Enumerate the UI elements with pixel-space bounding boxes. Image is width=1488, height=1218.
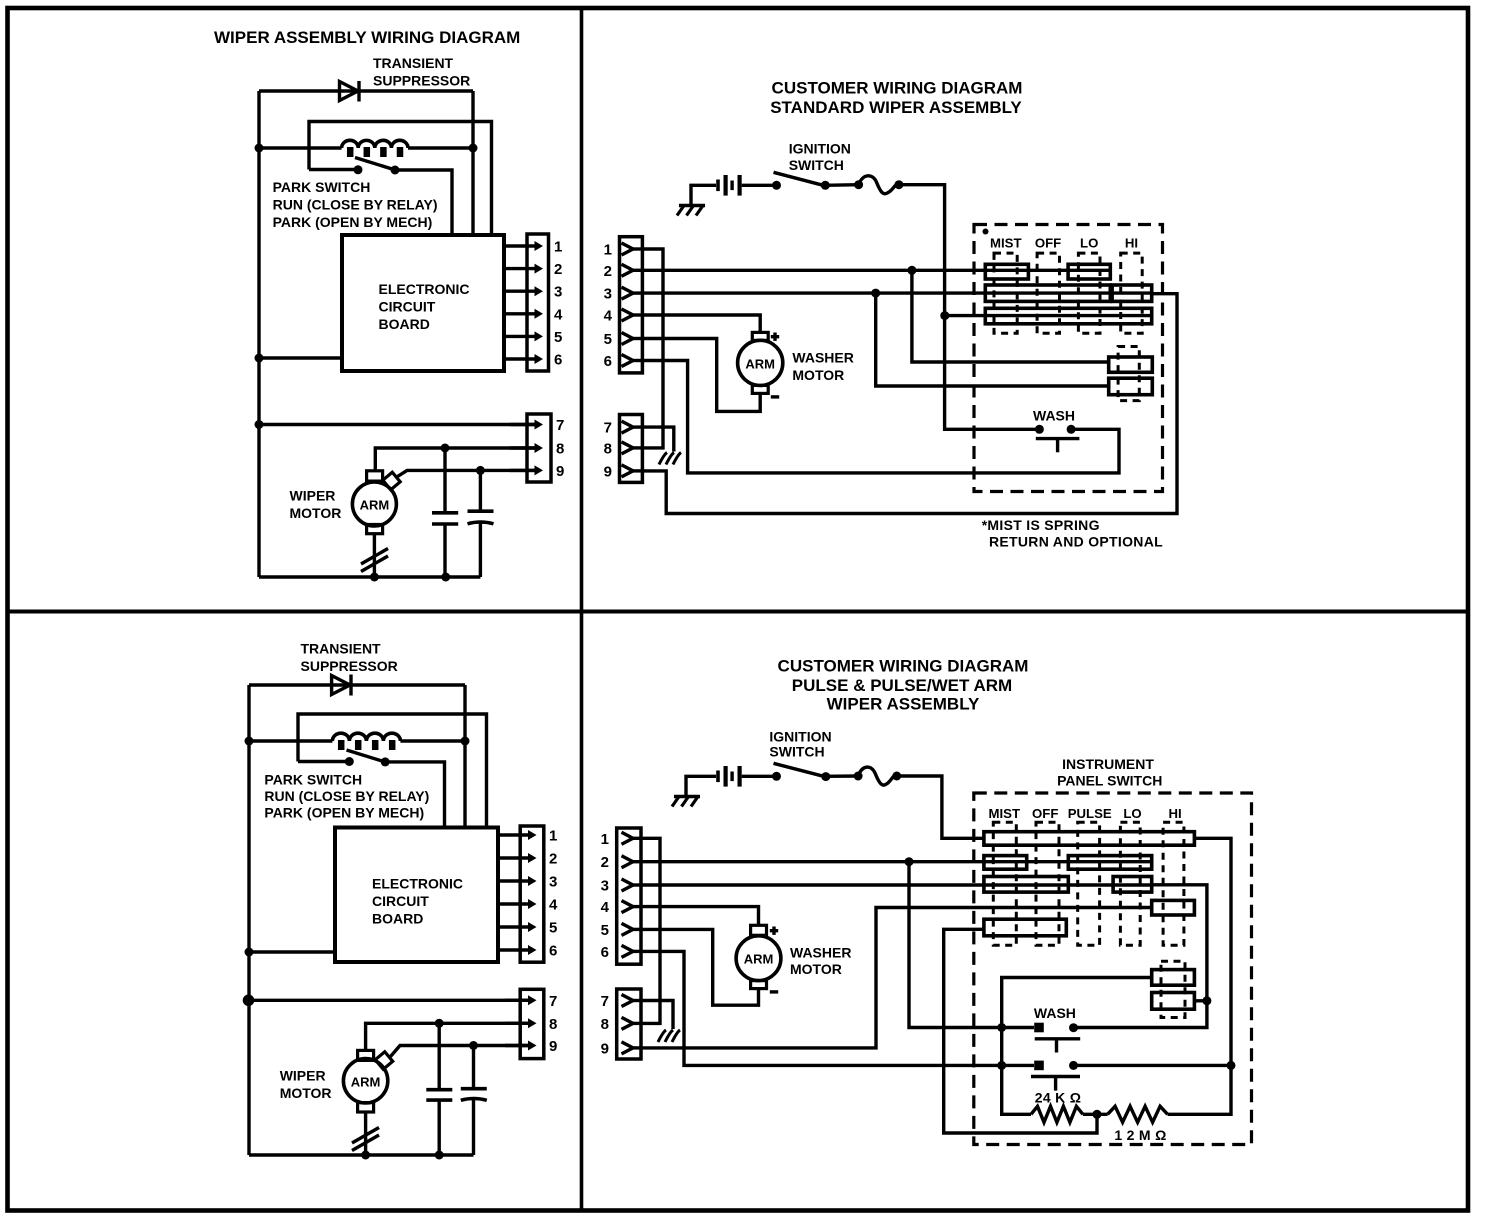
WASH switch S4 lower contacts (1034, 1061, 1044, 1071)
svg-text:PARK SWITCH: PARK SWITCH (264, 772, 362, 788)
junction: branch / WASH upper wire (997, 1023, 1006, 1032)
junction: pin8 wire / capacitor C3 (435, 1019, 444, 1028)
wire: left bus vertical (257, 91, 260, 577)
connector J6 shell pins 7-9 (620, 415, 643, 483)
pin 6 arrow (504, 357, 537, 360)
svg-text:5: 5 (549, 920, 557, 937)
wiper motor M1 body (352, 482, 396, 526)
svg-text:7: 7 (604, 420, 612, 437)
minus sign (770, 990, 778, 993)
junction: pin2 wire / WASH branch (905, 857, 914, 866)
svg-text:WASH: WASH (1034, 1005, 1076, 1021)
pin 2 terminal (622, 264, 634, 276)
junction: row3 output / washer contact B (1202, 996, 1211, 1005)
pin 6 arrow (498, 948, 531, 951)
svg-text:PARK SWITCH: PARK SWITCH (273, 179, 371, 195)
vertical divider between left and right panels (580, 8, 584, 1211)
svg-text:1: 1 (549, 828, 557, 845)
wire: row 5 to resistor junction (944, 929, 1097, 1133)
park switch contacts and lever (309, 168, 358, 171)
junction: motor / bottom bus (370, 573, 379, 582)
svg-text:OFF: OFF (1032, 806, 1058, 821)
svg-text:MOTOR: MOTOR (290, 505, 342, 521)
pin 1 terminal (622, 243, 634, 255)
svg-text:CIRCUIT: CIRCUIT (379, 299, 436, 315)
pin 7 terminal (622, 995, 634, 1007)
MIST slider dashed column (994, 253, 1017, 333)
junction: pin2 wire / washer contact branch (907, 266, 916, 275)
wire: pin 1 jumper down to pin 8 (641, 838, 660, 1023)
svg-text:CIRCUIT: CIRCUIT (372, 893, 429, 909)
asterisk marker for MIST (983, 229, 989, 235)
wire: pin 9 to motor brush (391, 1046, 529, 1057)
junction: feed / WASH-2 return (1227, 1061, 1236, 1070)
instrument panel dashed enclosure (974, 225, 1163, 492)
contact row5 MIST-OFF (984, 919, 1066, 936)
svg-text:ARM: ARM (745, 356, 775, 371)
pin 9 terminal (622, 1042, 634, 1054)
wire: washer contact B lead (1194, 999, 1207, 1002)
pin 8 terminal (622, 1017, 634, 1029)
svg-text:8: 8 (556, 441, 564, 458)
pin 1 arrow (504, 244, 537, 247)
svg-text:MOTOR: MOTOR (280, 1085, 332, 1101)
svg-text:RETURN AND OPTIONAL: RETURN AND OPTIONAL (989, 534, 1163, 550)
ground: pin 7 chassis ground (672, 1030, 680, 1042)
WASH switch plate and stem (1036, 437, 1080, 440)
wire: inductor feed from left bus (249, 739, 332, 742)
motor top terminal (358, 1050, 374, 1060)
pin 7 arrow (510, 423, 537, 426)
svg-text:ARM: ARM (744, 952, 774, 967)
plus sign (771, 335, 779, 338)
wire: 24K to junction (1083, 1113, 1108, 1116)
fusible link (854, 772, 863, 781)
junction: bus / board lead (245, 948, 254, 957)
wire: pin 4 to washer motor + (642, 315, 760, 332)
svg-text:WIPER: WIPER (290, 488, 336, 504)
HI slider dashed column (1121, 253, 1143, 333)
svg-text:WASHER: WASHER (790, 945, 851, 961)
inductor: relay coil (342, 140, 408, 148)
washer motor M4 body (736, 936, 781, 981)
pin 3 arrow (504, 290, 537, 293)
junction: branch / pin6 wire (997, 1061, 1006, 1070)
wire: pin 2 to MIST/LO row 1 (642, 269, 1110, 272)
svg-text:SWITCH: SWITCH (769, 744, 824, 760)
pin 2 terminal (622, 856, 634, 868)
svg-text:PARK (OPEN BY MECH): PARK (OPEN BY MECH) (273, 214, 433, 230)
pin 5 arrow (498, 925, 531, 928)
wire: battery negative lead (686, 776, 716, 796)
pin 4 terminal (622, 901, 634, 913)
svg-text:4: 4 (554, 306, 563, 323)
capacitor C1 (443, 448, 446, 512)
wire: fuse to feed vertical, down to LO/common row (899, 185, 945, 316)
svg-text:6: 6 (601, 944, 609, 961)
svg-text:3: 3 (549, 874, 557, 891)
svg-text:TRANSIENT: TRANSIENT (373, 55, 454, 71)
svg-text:2: 2 (549, 851, 557, 868)
connector J4 shell pins 7-9 (520, 989, 544, 1058)
svg-text:8: 8 (601, 1016, 609, 1033)
resistor R1 24 K ohm (1031, 1106, 1083, 1122)
wire: pin 7 to chassis ground (641, 1001, 673, 1030)
connector J2 shell pins 7-9 (527, 414, 551, 482)
svg-text:1: 1 (554, 239, 562, 256)
wire: washer contact A branch (1002, 978, 1152, 1115)
wire: inductor to right vertical (400, 739, 465, 742)
wiper motor M2 body (343, 1059, 387, 1103)
wire: pin 3 to row 2 (642, 291, 1152, 294)
svg-text:9: 9 (601, 1040, 609, 1057)
LO slider dashed column (1078, 253, 1100, 333)
svg-text:PANEL SWITCH: PANEL SWITCH (1057, 773, 1162, 789)
svg-text:3: 3 (601, 878, 609, 895)
svg-text:HI: HI (1125, 236, 1138, 251)
mechanical linkage slashes (352, 1128, 379, 1144)
svg-text:BOARD: BOARD (379, 316, 430, 332)
svg-text:HI: HI (1169, 806, 1182, 821)
wire: row 3 output to washer contact B and WASH right (1076, 885, 1207, 1028)
svg-text:MOTOR: MOTOR (792, 367, 844, 383)
connector J1 shell pins 1-6 (527, 234, 549, 371)
pin 6 terminal (622, 945, 634, 957)
svg-text:6: 6 (554, 352, 562, 369)
pin 7 arrow (505, 999, 531, 1002)
motor bottom terminal (358, 1103, 374, 1112)
svg-text:9: 9 (556, 463, 564, 480)
svg-text:SUPPRESSOR: SUPPRESSOR (373, 73, 470, 89)
wire: park switch to board (395, 170, 452, 237)
pin 3 terminal (622, 879, 634, 891)
wire: battery negative lead (691, 185, 716, 205)
junction: pin9 wire / capacitor C4 (469, 1041, 478, 1050)
contact row2 PULSE-LO (1068, 856, 1151, 870)
capacitor C4 (472, 1046, 475, 1088)
WASH switch S4 upper contacts (1034, 1023, 1044, 1033)
svg-text:TRANSIENT: TRANSIENT (301, 641, 382, 657)
pin 4 arrow (504, 312, 537, 315)
wire: WASH-2 return (1076, 1064, 1231, 1067)
svg-text:2: 2 (601, 854, 609, 871)
junction: coil / right vertical (469, 144, 478, 153)
svg-text:WIPER: WIPER (280, 1068, 326, 1084)
wire: pin 8 to wiper motor armature (366, 1023, 528, 1050)
motor top terminal (367, 471, 383, 481)
wire: branch down to WASH upper pole (909, 862, 1034, 1028)
wire: inductor feed from left bus (259, 146, 342, 149)
svg-text:4: 4 (549, 897, 558, 914)
svg-text:WIPER ASSEMBLY: WIPER ASSEMBLY (827, 695, 980, 714)
washer slider dashed column (1118, 347, 1139, 401)
WASH lower plate and stem (1031, 1075, 1080, 1078)
wire: pin 9 to motor brush (398, 470, 535, 476)
wire: pin 7 from left bus (259, 423, 535, 426)
pin 9 arrow (505, 1044, 531, 1047)
washer motor bottom terminal (752, 385, 768, 393)
svg-text:7: 7 (601, 993, 609, 1010)
washer contact A (1152, 970, 1195, 986)
pin 3 terminal (622, 287, 634, 299)
svg-text:4: 4 (604, 308, 613, 325)
junction: coil / right vertical (461, 737, 470, 746)
svg-text:WASHER: WASHER (792, 349, 853, 365)
resistor R2 1.2 M ohm (1108, 1106, 1168, 1122)
svg-text:CUSTOMER WIRING DIAGRAM: CUSTOMER WIRING DIAGRAM (778, 657, 1029, 676)
ignition switch S3 lever and contacts (772, 772, 781, 781)
pin 4 arrow (498, 902, 531, 905)
svg-text:ELECTRONIC: ELECTRONIC (379, 281, 470, 297)
svg-text:MIST: MIST (989, 806, 1021, 821)
svg-text:MOTOR: MOTOR (790, 961, 842, 977)
ignition switch S1 lever and contacts (772, 181, 781, 190)
pin 9 arrow (510, 469, 537, 472)
washer motor top terminal (751, 925, 767, 935)
svg-text:*MIST IS SPRING: *MIST IS SPRING (982, 517, 1100, 533)
wire: pin 9 up to HI row 4 (641, 908, 1152, 1048)
svg-text:IGNITION: IGNITION (769, 729, 831, 745)
washer slider dashed column (1161, 961, 1185, 1017)
wire: switch to fusible link (825, 183, 858, 187)
svg-text:1: 1 (601, 831, 609, 848)
wire: pin 4 to washer motor + (641, 907, 759, 926)
junction: bus / board lead (255, 354, 264, 363)
wire: pin 2 to row 2 (641, 860, 1152, 863)
connector J7 shell pins 1-6 (617, 828, 641, 964)
wire: battery to ignition switch (742, 775, 777, 778)
wire: pin 8 to wiper motor armature (375, 448, 534, 471)
electronic circuit board U2 (335, 828, 498, 963)
pin 5 terminal (622, 333, 634, 345)
svg-text:24 K Ω: 24 K Ω (1035, 1090, 1082, 1106)
ground: battery chassis ground (679, 204, 705, 207)
pin 2 arrow (504, 267, 537, 270)
wire: branch to washer motor contact B (876, 293, 1109, 386)
svg-text:8: 8 (549, 1016, 557, 1033)
pin 9 terminal (622, 465, 634, 477)
motor brush terminal (rotated) (383, 472, 400, 489)
svg-text:WIPER ASSEMBLY WIRING DIAGRAM: WIPER ASSEMBLY WIRING DIAGRAM (214, 28, 520, 47)
svg-text:6: 6 (604, 353, 612, 370)
pin 5 arrow (504, 335, 537, 338)
wire: motor bottom lead to ground bus (373, 534, 376, 577)
svg-text:1: 1 (604, 242, 612, 259)
electronic circuit board U1 (342, 235, 504, 371)
svg-text:1 2 M Ω: 1 2 M Ω (1114, 1127, 1166, 1143)
svg-text:INSTRUMENT: INSTRUMENT (1062, 756, 1154, 772)
svg-text:ARM: ARM (360, 498, 390, 513)
svg-text:IGNITION: IGNITION (789, 141, 851, 157)
WASH switch S2 contacts (1035, 425, 1044, 434)
svg-text:5: 5 (601, 922, 609, 939)
OFF slider dashed column (1037, 253, 1059, 333)
svg-text:9: 9 (604, 463, 612, 480)
svg-text:5: 5 (604, 331, 612, 348)
washer contact B (1152, 993, 1195, 1010)
MIST slider dashed column (993, 822, 1016, 945)
svg-text:MIST: MIST (990, 236, 1022, 251)
junction: C3 / bottom bus (435, 1151, 444, 1160)
minus sign (771, 395, 779, 398)
svg-text:ARM: ARM (351, 1074, 381, 1089)
svg-text:PULSE & PULSE/WET ARM: PULSE & PULSE/WET ARM (792, 676, 1012, 695)
wire: pin 1 jumper down to pin 8 (642, 249, 663, 448)
battery B2 (716, 771, 720, 783)
svg-text:CUSTOMER WIRING DIAGRAM: CUSTOMER WIRING DIAGRAM (772, 79, 1023, 98)
diode CR1 transient suppressor (340, 81, 360, 102)
svg-text:STANDARD WIPER ASSEMBLY: STANDARD WIPER ASSEMBLY (770, 98, 1022, 117)
svg-text:SWITCH: SWITCH (789, 157, 844, 173)
motor brush terminal (rotated) (375, 1052, 392, 1069)
PULSE slider dashed column (1078, 822, 1100, 945)
contact row1 LO (1068, 264, 1110, 279)
svg-text:3: 3 (554, 284, 562, 301)
pin 1 arrow (498, 833, 531, 836)
wire: pin 7 to chassis ground (642, 427, 674, 451)
wire: pin 6 to WASH lower pole (641, 951, 1034, 1065)
contact row3 MIST-OFF (984, 877, 1068, 893)
svg-text:BOARD: BOARD (372, 911, 423, 927)
HI slider dashed column (1163, 822, 1184, 945)
wire: diode top horizontal from left bus to right vertical (259, 89, 473, 92)
wire: bottom ground bus (249, 1153, 474, 1156)
svg-text:RUN (CLOSE BY RELAY): RUN (CLOSE BY RELAY) (264, 788, 429, 804)
svg-text:6: 6 (549, 943, 557, 960)
junction: bus / pin7 wire (255, 420, 264, 429)
wire: bottom ground bus (259, 575, 480, 578)
wire: motor bottom lead to ground bus (364, 1112, 367, 1155)
battery B1 (716, 180, 720, 192)
wire: park switch to board (385, 762, 444, 829)
pin 8 terminal (622, 442, 634, 454)
fusible link (854, 180, 863, 189)
contact row4 HI (1152, 900, 1195, 915)
junction: left bus / coil (255, 144, 264, 153)
wire: pin 9 to HI output (642, 294, 1177, 514)
washer motor bottom terminal (751, 981, 767, 989)
washer contact A (1109, 357, 1153, 372)
wire: pin 5 to washer motor - (641, 929, 759, 1005)
diode CR2 transient suppressor (332, 675, 351, 696)
capacitor C3 (438, 1023, 441, 1088)
pin 1 terminal (622, 832, 634, 844)
svg-text:PULSE: PULSE (1068, 806, 1112, 821)
washer contact B (1109, 378, 1153, 395)
junction: feed / common row 3 (940, 311, 949, 320)
mechanical linkage slashes (361, 549, 388, 565)
LO slider dashed column (1120, 822, 1140, 945)
pin 7 terminal (622, 421, 634, 433)
washer motor M3 body (738, 340, 783, 385)
pin 4 terminal (622, 309, 634, 321)
svg-text:7: 7 (549, 993, 557, 1010)
wire: pin 6 to WASH switch return (642, 361, 1119, 473)
wire: common row 3 (945, 314, 1152, 317)
junction: motor / bottom bus (361, 1151, 370, 1160)
svg-text:RUN (CLOSE BY RELAY): RUN (CLOSE BY RELAY) (273, 197, 438, 213)
ground: pin 7 chassis ground (673, 453, 681, 465)
junction: left bus / coil (245, 737, 254, 746)
pin 3 arrow (498, 879, 531, 882)
svg-text:ELECTRONIC: ELECTRONIC (372, 876, 463, 892)
instrument panel dashed enclosure (974, 793, 1252, 1145)
svg-text:PARK (OPEN BY MECH): PARK (OPEN BY MECH) (264, 805, 424, 821)
pin 2 arrow (498, 856, 531, 859)
park switch contacts and lever (298, 760, 349, 763)
WASH upper plate and stem (1035, 1037, 1081, 1040)
horizontal divider between top and bottom panels (8, 610, 1469, 614)
junction: bus / pin7 wire (243, 995, 255, 1007)
contact row3 LO (1113, 877, 1152, 893)
wire: right vertical from diode line down to board pin (471, 91, 474, 237)
connector J5 shell pins 1-6 (620, 237, 643, 373)
connector J3 shell pins 1-6 (520, 826, 544, 962)
junction: pin3 wire / washer contact branch (871, 289, 880, 298)
svg-text:5: 5 (554, 329, 562, 346)
connector J8 shell pins 7-9 (617, 989, 641, 1059)
svg-text:4: 4 (601, 899, 610, 916)
pin 5 terminal (622, 923, 634, 935)
wire: feed continues down to WASH contact (945, 316, 1036, 430)
contact row2 common (985, 285, 1110, 301)
junction: C1 / bottom bus (441, 573, 450, 582)
washer motor top terminal (752, 332, 768, 340)
svg-text:3: 3 (604, 286, 612, 303)
wire: fuse to feed corner, down to feed row 1 (897, 776, 984, 838)
wire: diode top horizontal (249, 683, 465, 686)
wire: row 1 output feed down (1168, 838, 1231, 1114)
svg-text:9: 9 (549, 1038, 557, 1055)
contact row2 MIST (984, 856, 1027, 870)
pin 6 terminal (622, 355, 634, 367)
wire: relay loop top and sides (309, 122, 492, 237)
capacitor C2 (479, 470, 482, 509)
svg-text:LO: LO (1123, 806, 1141, 821)
junction: pin8 wire / capacitor C1 (441, 444, 450, 453)
wire: relay loop top and sides (298, 714, 487, 829)
wire: pin 7 from left bus (249, 999, 528, 1002)
ground: battery chassis ground (674, 795, 700, 798)
wire: inductor to right vertical (408, 146, 473, 149)
wire: board left lead from bus (249, 950, 335, 953)
wire: switch to fusible link (826, 774, 858, 778)
pin 8 arrow (510, 446, 537, 449)
wire: pin 3 to row 3 (641, 883, 1152, 886)
contact row1 feed (984, 832, 1195, 846)
svg-text:2: 2 (604, 263, 612, 280)
inductor: relay coil (332, 733, 400, 741)
motor bottom terminal (367, 525, 383, 534)
wire: right vertical from diode line to board (463, 685, 466, 829)
OFF slider dashed column (1036, 822, 1059, 945)
plus sign (770, 929, 778, 932)
svg-text:OFF: OFF (1035, 236, 1061, 251)
svg-text:2: 2 (554, 261, 562, 278)
contact row1 MIST (985, 264, 1028, 279)
svg-text:8: 8 (604, 440, 612, 457)
svg-text:7: 7 (556, 417, 564, 434)
junction: pin9 wire / capacitor C2 (476, 466, 485, 475)
svg-text:LO: LO (1080, 236, 1098, 251)
wire: board left lead from bus (259, 356, 342, 359)
contact row3 feed (985, 308, 1151, 324)
wire: battery to ignition switch (742, 184, 777, 187)
contact row2 HI (1112, 285, 1152, 301)
wire: branch to washer motor contact A (912, 270, 1109, 362)
wire: left bus vertical (247, 685, 250, 1155)
svg-text:SUPPRESSOR: SUPPRESSOR (301, 658, 398, 674)
